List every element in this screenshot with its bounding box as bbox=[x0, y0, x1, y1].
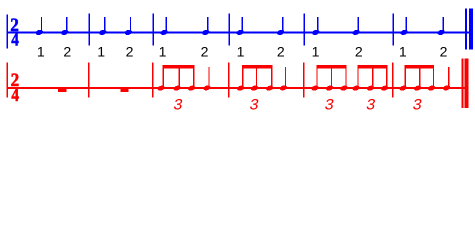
svg-text:2: 2 bbox=[277, 43, 285, 59]
svg-text:2: 2 bbox=[63, 43, 71, 59]
svg-text:4: 4 bbox=[11, 29, 19, 50]
svg-text:1: 1 bbox=[399, 43, 407, 59]
svg-text:3: 3 bbox=[324, 97, 333, 115]
svg-text:3: 3 bbox=[173, 97, 182, 115]
svg-text:1: 1 bbox=[37, 43, 45, 59]
svg-text:1: 1 bbox=[237, 43, 245, 59]
svg-text:3: 3 bbox=[413, 97, 422, 115]
svg-text:2: 2 bbox=[355, 43, 363, 59]
svg-text:2: 2 bbox=[201, 43, 209, 59]
svg-text:2: 2 bbox=[126, 43, 134, 59]
svg-text:1: 1 bbox=[159, 43, 167, 59]
svg-text:4: 4 bbox=[11, 85, 19, 106]
svg-text:3: 3 bbox=[366, 97, 375, 115]
svg-text:1: 1 bbox=[312, 43, 320, 59]
svg-text:3: 3 bbox=[249, 97, 258, 115]
svg-text:2: 2 bbox=[440, 43, 448, 59]
svg-text:1: 1 bbox=[97, 43, 105, 59]
